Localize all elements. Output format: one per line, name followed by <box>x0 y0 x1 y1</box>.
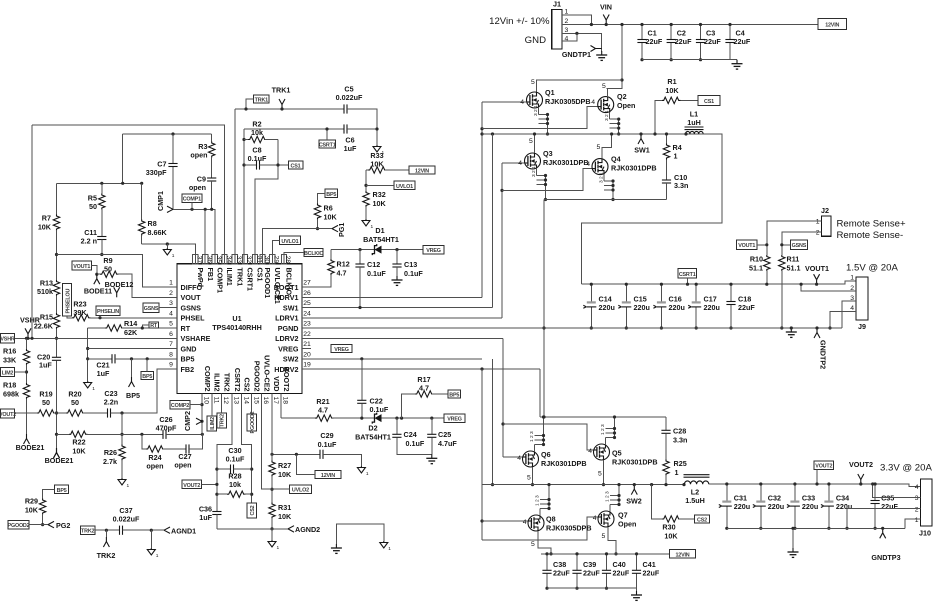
SEC1 <box>480 23 721 417</box>
svg-text:50: 50 <box>42 398 50 407</box>
wire VOUT1 rail <box>582 281 857 284</box>
svg-text:R27: R27 <box>278 461 291 470</box>
svg-text:0.1uF: 0.1uF <box>248 154 267 163</box>
svg-text:TPS40140RHH: TPS40140RHH <box>212 323 262 332</box>
svg-text:Q2: Q2 <box>617 92 627 101</box>
svg-text:5: 5 <box>602 83 606 90</box>
diode D1 BAT54HT1 <box>372 244 381 255</box>
svg-text:19: 19 <box>303 362 311 369</box>
svg-text:51.1: 51.1 <box>749 264 763 273</box>
wire pin33 vertical <box>234 109 236 264</box>
capacitor C13 <box>396 250 398 264</box>
capacitor C26 <box>163 430 166 439</box>
inductor L1 <box>686 131 704 134</box>
svg-text:CSRT1: CSRT1 <box>679 272 696 278</box>
capacitor C40 <box>606 554 608 588</box>
svg-text:UVLO1: UVLO1 <box>281 239 298 245</box>
svg-text:R8: R8 <box>148 219 157 228</box>
ground <box>118 478 130 489</box>
net label BP5 <box>448 390 461 398</box>
ground <box>373 145 385 156</box>
flag BODE21 <box>54 448 60 458</box>
svg-text:Remote Sense+: Remote Sense+ <box>837 219 906 230</box>
connector J9 <box>856 277 868 320</box>
ground <box>84 381 96 392</box>
svg-text:COMP1: COMP1 <box>183 197 201 203</box>
svg-text:220u: 220u <box>836 502 852 511</box>
resistor R28 <box>215 493 218 496</box>
pin 33 TRK1 <box>232 254 237 263</box>
wire pin7 GND <box>88 348 168 350</box>
wire J9 pin2 <box>801 284 856 291</box>
resistor R26 <box>121 413 123 445</box>
pin 36 FB1 <box>203 254 208 263</box>
svg-text:CS1: CS1 <box>291 163 301 169</box>
svg-text:Remote Sense-: Remote Sense- <box>837 230 904 241</box>
svg-text:GNDTP1: GNDTP1 <box>562 50 591 59</box>
transistor Q6 <box>523 451 539 467</box>
net label 12VIN <box>818 19 847 30</box>
svg-text:D1: D1 <box>375 226 384 235</box>
svg-text:U1: U1 <box>232 314 241 323</box>
wire VOUT2 rail <box>709 484 921 487</box>
svg-text:Q5: Q5 <box>612 449 622 458</box>
wire HDRV2 row <box>302 368 540 370</box>
resistor R27 <box>269 461 275 477</box>
connector J2 <box>822 216 832 236</box>
svg-text:220u: 220u <box>802 502 818 511</box>
wire Q4 gate <box>502 169 592 191</box>
capacitor C9 <box>207 178 216 181</box>
capacitor C24 <box>396 418 398 434</box>
wire BOOT2 feed <box>539 369 541 417</box>
svg-text:SW2: SW2 <box>283 355 299 364</box>
svg-text:5: 5 <box>598 471 602 478</box>
wire Q7 gate <box>482 517 598 540</box>
svg-text:2: 2 <box>565 18 569 25</box>
wire TRK1 <box>235 108 344 110</box>
flag CMP1 <box>167 206 173 209</box>
net label COMP2 <box>170 400 190 408</box>
svg-text:30: 30 <box>263 256 270 264</box>
svg-text:10K: 10K <box>373 199 387 208</box>
svg-text:22uF: 22uF <box>643 569 660 578</box>
svg-text:RJK0305DPB: RJK0305DPB <box>545 97 591 106</box>
svg-text:J9: J9 <box>858 322 866 331</box>
wire Q6 drain <box>532 467 534 485</box>
wire VOUT2 gnd rail <box>727 527 905 529</box>
pin 29 UVLO-CE1 <box>270 254 275 263</box>
svg-text:3 2 1: 3 2 1 <box>604 110 610 121</box>
svg-text:34: 34 <box>225 256 232 264</box>
svg-text:50: 50 <box>104 265 112 274</box>
wire FB1 sense vertical <box>31 125 33 338</box>
wire SW2 rail <box>482 484 684 486</box>
svg-text:R10: R10 <box>750 255 763 264</box>
capacitor C10 <box>662 180 671 183</box>
svg-text:22uF: 22uF <box>675 37 692 46</box>
wire SW1 pin25 vertical <box>492 134 494 308</box>
svg-text:VOUT1: VOUT1 <box>738 243 755 249</box>
svg-text:PGOOD2: PGOOD2 <box>253 361 262 392</box>
svg-text:J10: J10 <box>919 529 931 538</box>
net label PHSELOU <box>62 284 71 317</box>
transistor Q1 <box>527 92 543 108</box>
net label TRK2 <box>217 413 226 428</box>
capacitor C11 <box>97 237 106 240</box>
wire J10 pin1 <box>905 519 921 528</box>
svg-text:GNDTP3: GNDTP3 <box>871 553 900 562</box>
svg-text:220u: 220u <box>599 303 615 312</box>
svg-text:8.66K: 8.66K <box>148 228 168 237</box>
svg-text:13: 13 <box>233 397 240 405</box>
wire SW2 row <box>302 358 482 360</box>
svg-text:1: 1 <box>850 275 854 282</box>
net label 12VIN <box>670 550 696 558</box>
svg-text:CS2: CS2 <box>250 505 256 515</box>
svg-text:22uF: 22uF <box>613 569 630 578</box>
ground <box>331 544 342 553</box>
svg-text:PwPd: PwPd <box>196 268 205 288</box>
svg-text:PGND: PGND <box>278 324 299 333</box>
svg-text:ILIM2: ILIM2 <box>213 373 222 391</box>
svg-text:PGOOD2: PGOOD2 <box>250 411 256 433</box>
svg-text:FB2: FB2 <box>181 365 195 374</box>
svg-text:CS2: CS2 <box>697 517 707 523</box>
wire RT gnd vertical <box>87 328 89 381</box>
resistor R11 <box>779 255 785 271</box>
net label LIM2 <box>1 367 15 376</box>
net label UVLO1 <box>279 236 300 244</box>
svg-text:1: 1 <box>675 468 679 477</box>
pin 4 PHSEL <box>168 317 177 319</box>
capacitor C36 <box>212 512 221 515</box>
svg-text:12VIN: 12VIN <box>676 552 690 558</box>
ground <box>357 466 369 477</box>
svg-text:R12: R12 <box>337 260 350 269</box>
svg-text:AGND1: AGND1 <box>171 526 196 535</box>
net label UVLO1 <box>394 181 415 189</box>
resistor R30 <box>650 483 653 486</box>
transistor Q4 <box>592 159 608 175</box>
svg-text:16: 16 <box>262 397 269 405</box>
svg-text:LDRV2: LDRV2 <box>275 334 298 343</box>
svg-text:5: 5 <box>527 475 531 482</box>
transistor Q3 <box>525 153 541 169</box>
svg-text:698k: 698k <box>3 390 19 399</box>
svg-text:BODE12: BODE12 <box>105 280 134 289</box>
svg-text:36: 36 <box>206 256 213 264</box>
svg-text:9: 9 <box>169 362 173 369</box>
svg-text:R29: R29 <box>25 497 38 506</box>
SEC8 <box>709 460 933 562</box>
svg-text:510k: 510k <box>37 287 53 296</box>
SEC7 <box>480 338 709 600</box>
resistor R32 <box>365 170 367 191</box>
svg-text:1: 1 <box>816 219 820 226</box>
svg-text:2.2n: 2.2n <box>104 398 118 407</box>
wire Q2 gate <box>482 107 598 129</box>
net label CS2 <box>695 515 710 523</box>
net label VREG <box>444 414 465 422</box>
svg-text:open: open <box>190 151 207 160</box>
wire Q4 drain <box>602 134 612 159</box>
resistor R9 <box>95 273 98 276</box>
flag SW2 <box>631 485 637 495</box>
svg-text:2.2 n: 2.2 n <box>81 237 97 246</box>
svg-text:10K: 10K <box>665 86 679 95</box>
svg-text:1uF: 1uF <box>39 361 52 370</box>
svg-text:R6: R6 <box>324 204 333 213</box>
svg-text:RJK0305DPB: RJK0305DPB <box>546 524 592 533</box>
svg-text:22uF: 22uF <box>553 569 570 578</box>
wire pin10 COMP2 <box>201 394 203 435</box>
svg-text:VOUT2: VOUT2 <box>0 412 16 418</box>
svg-text:FB1: FB1 <box>206 268 215 282</box>
svg-text:4: 4 <box>588 448 592 455</box>
svg-text:4: 4 <box>593 515 597 522</box>
net label VREG <box>423 245 444 253</box>
resistor R5 <box>100 182 103 185</box>
svg-text:62K: 62K <box>124 328 138 337</box>
svg-text:1uF: 1uF <box>344 144 357 153</box>
svg-text:R30: R30 <box>662 523 675 532</box>
svg-text:Q4: Q4 <box>611 155 621 164</box>
capacitor C30 <box>215 468 218 471</box>
svg-text:0.1uF: 0.1uF <box>367 269 386 278</box>
capacitor C16 <box>660 284 662 328</box>
pin 37 PwPd <box>193 254 198 263</box>
svg-text:BP5: BP5 <box>326 192 336 198</box>
pin 28 BCLKIO <box>281 254 286 263</box>
pin 25 SW1 <box>302 307 311 309</box>
pin 23 PGND <box>302 327 311 329</box>
resistor R12 <box>302 275 331 288</box>
svg-text:CMP2: CMP2 <box>183 411 192 431</box>
wire Q5 drain <box>603 460 605 485</box>
svg-text:open: open <box>174 461 191 470</box>
svg-text:R22: R22 <box>72 438 85 447</box>
flag BP5 <box>131 359 133 377</box>
svg-text:R11: R11 <box>787 255 800 264</box>
svg-text:5: 5 <box>531 541 535 548</box>
flag BODE12 <box>114 287 120 297</box>
svg-text:15: 15 <box>252 397 259 405</box>
net label BCLKIO <box>304 248 323 256</box>
svg-text:VOUT2: VOUT2 <box>849 460 873 469</box>
flag VIN <box>603 15 609 25</box>
resistor R25 <box>663 460 669 476</box>
svg-text:4.7: 4.7 <box>419 384 429 393</box>
svg-text:10K: 10K <box>370 160 384 169</box>
flag BODE21 <box>54 448 60 458</box>
pin 2 VOUT <box>168 296 177 298</box>
wire J10 pin2 <box>847 509 921 529</box>
wire Q8 drain <box>538 531 551 554</box>
svg-text:BAT54HT1: BAT54HT1 <box>355 433 391 442</box>
svg-text:1.5uH: 1.5uH <box>685 496 705 505</box>
diode D2 BAT54HT1 <box>372 413 381 424</box>
flag PG1 <box>332 225 338 228</box>
pin 35 COMP1 <box>212 254 217 263</box>
svg-text:BP5: BP5 <box>126 391 140 400</box>
pin 21 VREG <box>302 348 311 350</box>
svg-text:32: 32 <box>245 256 252 264</box>
svg-text:R14: R14 <box>124 319 137 328</box>
capacitor C33 <box>794 484 796 528</box>
svg-text:5: 5 <box>529 138 533 145</box>
svg-text:PHSELOU: PHSELOU <box>65 289 71 314</box>
svg-text:C25: C25 <box>438 430 451 439</box>
flag CMP2 <box>196 418 202 421</box>
svg-text:2: 2 <box>169 290 173 297</box>
capacitor C34 <box>828 484 830 528</box>
wire pin37 <box>142 244 196 264</box>
wire Q1 drain <box>537 80 623 92</box>
svg-text:3.3V @ 20A: 3.3V @ 20A <box>880 463 932 474</box>
svg-text:GND: GND <box>525 35 546 46</box>
svg-text:220u: 220u <box>634 303 650 312</box>
resistor R18 <box>23 383 29 399</box>
svg-text:4: 4 <box>169 310 173 317</box>
svg-text:GSNS: GSNS <box>792 243 807 249</box>
wire L1 out <box>582 134 722 284</box>
SEC3 <box>168 254 311 404</box>
svg-text:10k: 10k <box>229 480 241 489</box>
svg-text:LIM2: LIM2 <box>2 370 14 376</box>
wire LDRV2 row <box>302 337 503 339</box>
net label CS2 <box>247 503 256 518</box>
svg-text:TRK1: TRK1 <box>272 86 291 95</box>
wire J9 pin4 <box>830 311 856 328</box>
svg-text:5: 5 <box>169 321 173 328</box>
resistor R21 <box>281 417 315 419</box>
capacitor C4 <box>729 25 731 60</box>
ground <box>792 528 794 548</box>
svg-text:12VIN: 12VIN <box>415 168 429 174</box>
capacitor C12 <box>359 250 361 264</box>
svg-text:3.3n: 3.3n <box>673 436 687 445</box>
svg-text:CSRT2: CSRT2 <box>233 368 242 392</box>
svg-text:SW2: SW2 <box>626 497 642 506</box>
pin 19 HDRV2 <box>302 368 311 370</box>
capacitor C14 <box>590 284 592 328</box>
svg-text:C28: C28 <box>673 427 686 436</box>
ground <box>166 244 168 248</box>
Q2 source pins 1-3 <box>610 112 619 134</box>
svg-text:12: 12 <box>222 397 229 405</box>
svg-text:22uF: 22uF <box>704 37 721 46</box>
resistor R16 <box>25 337 28 340</box>
svg-text:VREG: VREG <box>334 347 348 353</box>
capacitor C41 <box>636 554 638 588</box>
svg-text:CMP1: CMP1 <box>156 191 165 211</box>
pin 1 DIFFO <box>168 286 177 288</box>
svg-text:open: open <box>146 462 163 471</box>
svg-text:R26: R26 <box>104 448 117 457</box>
net label VOUT1 <box>737 240 758 249</box>
flag AGND2 <box>288 526 294 532</box>
svg-text:10K: 10K <box>278 470 292 479</box>
wire pin14 CS2 <box>242 394 252 503</box>
svg-text:0.022uF: 0.022uF <box>336 93 363 102</box>
svg-text:14: 14 <box>242 397 249 405</box>
svg-text:PG2: PG2 <box>56 521 70 530</box>
capacitor C25 <box>431 418 433 434</box>
flag VSHR <box>25 328 31 338</box>
svg-text:0.1uF: 0.1uF <box>318 440 337 449</box>
net label PHSELIN <box>96 306 120 315</box>
svg-text:VSHR: VSHR <box>0 337 14 343</box>
svg-text:Open: Open <box>617 101 635 110</box>
wire VIN drop <box>607 25 622 89</box>
pin 34 ILIM1 <box>222 254 227 263</box>
flag BODE11 <box>94 274 100 284</box>
ground <box>380 541 392 552</box>
svg-text:25: 25 <box>303 300 311 307</box>
svg-text:R25: R25 <box>674 459 687 468</box>
svg-text:RJK0301DPB: RJK0301DPB <box>543 158 589 167</box>
svg-text:1: 1 <box>674 152 678 161</box>
svg-text:VOUT: VOUT <box>181 293 202 302</box>
svg-text:TRK1: TRK1 <box>255 97 268 103</box>
svg-text:1 2 3: 1 2 3 <box>529 431 535 442</box>
pin 22 LDRV2 <box>302 337 311 339</box>
svg-text:TRK2: TRK2 <box>97 551 116 560</box>
wire pin16 UVLO-CE2 <box>262 394 273 490</box>
svg-text:10K: 10K <box>25 506 39 515</box>
svg-text:22uF: 22uF <box>646 37 663 46</box>
svg-text:VOUT2: VOUT2 <box>183 483 200 489</box>
capacitor C3 <box>700 25 702 60</box>
connector J1 <box>552 9 562 49</box>
wire J9 pin3 <box>842 301 856 328</box>
svg-text:GNDTP2: GNDTP2 <box>819 340 828 369</box>
svg-text:1: 1 <box>169 280 173 287</box>
svg-text:R31: R31 <box>278 503 291 512</box>
wire J1 pin4 <box>562 33 577 41</box>
wire 12VIN rail <box>541 553 670 555</box>
svg-text:PHSEL: PHSEL <box>181 314 206 323</box>
svg-text:R16: R16 <box>3 347 16 356</box>
net label PGOOD2 <box>247 414 256 431</box>
svg-text:BP5: BP5 <box>449 392 459 398</box>
flag TRK1 <box>279 99 285 109</box>
capacitor C32 <box>760 484 762 528</box>
capacitor C31 <box>726 484 728 528</box>
svg-text:TRK1: TRK1 <box>236 268 245 287</box>
wire left rail <box>57 183 142 214</box>
svg-text:3: 3 <box>565 27 569 34</box>
resistor R22 <box>57 433 70 435</box>
capacitor C6 <box>244 128 344 130</box>
svg-text:Q6: Q6 <box>541 450 551 459</box>
pin 5 RT <box>168 327 177 329</box>
capacitor C23 <box>108 408 111 417</box>
flag AGND1 <box>164 527 170 533</box>
resistor R4 <box>666 134 668 180</box>
svg-text:ILIM1: ILIM1 <box>225 268 234 286</box>
wire J1 pin2 / VIN rail <box>562 24 818 26</box>
svg-text:VSHARE: VSHARE <box>181 334 211 343</box>
flag VOUT2 <box>858 474 864 484</box>
wire PGOOD1 <box>263 229 333 264</box>
svg-text:3 2 1: 3 2 1 <box>599 172 605 183</box>
svg-text:27: 27 <box>303 280 311 287</box>
transistor Q2 <box>598 97 614 113</box>
pin 20 SW2 <box>302 358 311 360</box>
wire J2 pin2 <box>782 232 822 255</box>
